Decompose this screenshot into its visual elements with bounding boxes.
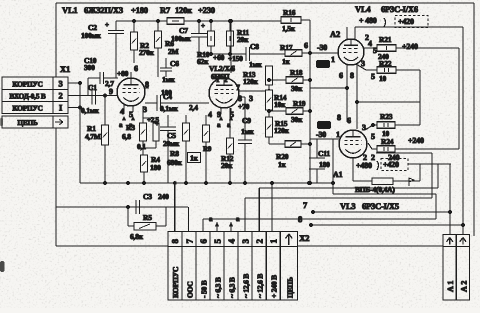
svg-text:~ 6,3 В: ~ 6,3 В <box>227 277 236 298</box>
svg-text:6Р3С-I/Х5: 6Р3С-I/Х5 <box>362 201 399 211</box>
svg-text:1к: 1к <box>278 160 287 169</box>
svg-text:3: 3 <box>241 239 251 244</box>
svg-text:1мк: 1мк <box>241 127 254 136</box>
svg-text:R16: R16 <box>283 8 296 17</box>
svg-text:5: 5 <box>371 132 375 141</box>
svg-text:+70: +70 <box>238 102 250 111</box>
svg-text:КОРПУС: КОРПУС <box>171 267 180 298</box>
svg-text:8: 8 <box>337 113 341 122</box>
svg-text:+230: +230 <box>198 5 215 15</box>
svg-text:6: 6 <box>304 41 308 50</box>
svg-text:C11: C11 <box>318 149 330 158</box>
svg-text:240: 240 <box>158 192 169 201</box>
svg-text:180: 180 <box>150 163 161 172</box>
svg-text:8: 8 <box>170 239 180 244</box>
svg-text:120к: 120к <box>175 5 192 15</box>
svg-text:1к: 1к <box>190 154 199 163</box>
svg-text:9: 9 <box>109 87 113 96</box>
svg-text:6: 6 <box>134 64 138 73</box>
svg-text:А 2: А 2 <box>459 281 468 292</box>
svg-text:3: 3 <box>249 94 253 103</box>
svg-text:+: + <box>155 120 159 128</box>
svg-text:R18: R18 <box>290 68 303 77</box>
svg-text:+: + <box>201 22 205 30</box>
svg-text:0,1мк: 0,1мк <box>81 106 100 115</box>
svg-text:C6: C6 <box>170 59 179 68</box>
svg-text:0,1мк: 0,1мк <box>160 104 179 113</box>
svg-text:КОРПУС: КОРПУС <box>12 104 42 113</box>
svg-text:ВПБ-4(0,4А): ВПБ-4(0,4А) <box>355 185 395 194</box>
svg-text:R23: R23 <box>380 112 393 121</box>
svg-text:+420: +420 <box>398 17 414 26</box>
svg-text:120к: 120к <box>243 77 259 86</box>
svg-text:3: 3 <box>58 78 62 88</box>
svg-text:R19: R19 <box>293 99 306 108</box>
svg-text:~ 12,6 В: ~ 12,6 В <box>242 274 251 298</box>
svg-text:100мк: 100мк <box>171 34 192 43</box>
svg-text:20к: 20к <box>237 35 249 44</box>
svg-text:R24: R24 <box>381 137 394 146</box>
svg-text:~ 6,3 В: ~ 6,3 В <box>213 277 222 298</box>
svg-text:4: 4 <box>208 110 212 119</box>
svg-text:1мк: 1мк <box>249 60 262 69</box>
svg-text:6Р3С-I/Х6: 6Р3С-I/Х6 <box>381 4 418 14</box>
svg-text:-30: -30 <box>316 130 326 139</box>
svg-text:БЗЧ: БЗЧ <box>319 124 329 130</box>
svg-text:20мк: 20мк <box>163 139 180 148</box>
svg-text:2,7: 2,7 <box>105 79 114 88</box>
svg-text:5: 5 <box>373 46 377 55</box>
svg-text:1: 1 <box>336 130 340 139</box>
svg-text:6Ж32П/Х3: 6Ж32П/Х3 <box>84 5 123 15</box>
svg-text:А1: А1 <box>333 170 343 179</box>
svg-text:5: 5 <box>371 72 375 81</box>
svg-text:7: 7 <box>184 239 194 244</box>
svg-text:R5: R5 <box>143 213 152 222</box>
svg-text:C8: C8 <box>250 42 259 51</box>
svg-text:300: 300 <box>84 63 95 72</box>
svg-text:8: 8 <box>350 71 354 80</box>
svg-text:R8: R8 <box>170 149 179 158</box>
svg-text:680к: 680к <box>167 158 183 167</box>
svg-text:120к: 120к <box>274 126 290 135</box>
svg-text:А 1: А 1 <box>446 281 455 292</box>
svg-text:VL1: VL1 <box>62 5 77 15</box>
svg-text:2: 2 <box>255 239 265 244</box>
svg-text:+240: +240 <box>408 136 424 145</box>
svg-text:1: 1 <box>269 239 279 244</box>
svg-text:C1: C1 <box>88 83 97 92</box>
svg-text:КОРПУС: КОРПУС <box>12 79 42 88</box>
svg-text:2М: 2М <box>168 47 179 56</box>
svg-text:А2: А2 <box>330 29 340 39</box>
svg-text:30к: 30к <box>291 115 303 124</box>
svg-text:6: 6 <box>347 116 351 125</box>
svg-text:+240: +240 <box>402 42 418 51</box>
svg-text:+480: +480 <box>356 161 372 170</box>
svg-text:100: 100 <box>161 88 172 97</box>
svg-text:ЦЕПЬ: ЦЕПЬ <box>17 118 38 127</box>
svg-text:6,8: 6,8 <box>122 132 131 141</box>
svg-text:4: 4 <box>226 239 236 244</box>
svg-text:62к: 62к <box>197 57 209 66</box>
svg-text:3: 3 <box>361 59 365 68</box>
svg-text:2: 2 <box>58 91 62 101</box>
svg-text:8: 8 <box>298 214 302 224</box>
svg-text:ООС: ООС <box>185 281 194 298</box>
svg-text:БЗЧ: БЗЧ <box>318 63 328 69</box>
svg-text:6: 6 <box>198 239 208 244</box>
svg-text:~ 12,6 В: ~ 12,6 В <box>256 274 265 298</box>
svg-text:30к: 30к <box>291 84 303 93</box>
svg-text:X2: X2 <box>299 233 309 243</box>
svg-text:R21: R21 <box>379 35 392 44</box>
svg-text:C3: C3 <box>143 192 152 201</box>
svg-text:10: 10 <box>379 74 387 83</box>
svg-text:ЦЕПЬ: ЦЕПЬ <box>285 277 294 298</box>
svg-text:6: 6 <box>339 71 343 80</box>
svg-text:-30: -30 <box>317 43 327 52</box>
svg-text:1: 1 <box>331 55 335 64</box>
svg-text:R9: R9 <box>203 145 212 153</box>
svg-text:+80: +80 <box>117 69 129 78</box>
svg-text:ВХОД-0,5 В: ВХОД-0,5 В <box>9 92 45 101</box>
svg-text:R7: R7 <box>160 5 171 15</box>
svg-text:4: 4 <box>368 39 372 48</box>
svg-text:20к: 20к <box>221 161 233 170</box>
svg-text:0,1: 0,1 <box>137 142 146 151</box>
svg-text:VL4: VL4 <box>355 4 371 14</box>
svg-text:VL3: VL3 <box>340 201 355 211</box>
svg-text:2,4: 2,4 <box>189 103 198 112</box>
svg-text:+: + <box>105 21 109 29</box>
svg-text:100мк: 100мк <box>81 31 102 40</box>
svg-text:4,7М: 4,7М <box>85 132 101 141</box>
svg-text:1мк: 1мк <box>162 75 175 84</box>
svg-text:5: 5 <box>212 239 222 244</box>
svg-text:+ 480: + 480 <box>359 16 377 25</box>
svg-text:10к: 10к <box>274 100 286 109</box>
svg-text:3: 3 <box>362 123 366 132</box>
svg-text:X1: X1 <box>60 64 70 74</box>
svg-text:180: 180 <box>319 160 330 169</box>
svg-text:270к: 270к <box>139 48 155 57</box>
svg-text:+ 240 В: + 240 В <box>270 275 279 298</box>
svg-text:- 50 В: - 50 В <box>199 280 208 298</box>
svg-text:+420: +420 <box>383 160 399 169</box>
svg-text:C9: C9 <box>242 116 251 125</box>
svg-text:6,8к: 6,8к <box>130 232 144 241</box>
svg-text:1к: 1к <box>282 57 291 66</box>
svg-text:1,5к: 1,5к <box>282 24 296 33</box>
svg-text:R3: R3 <box>126 123 135 132</box>
svg-text:+180: +180 <box>131 5 148 15</box>
